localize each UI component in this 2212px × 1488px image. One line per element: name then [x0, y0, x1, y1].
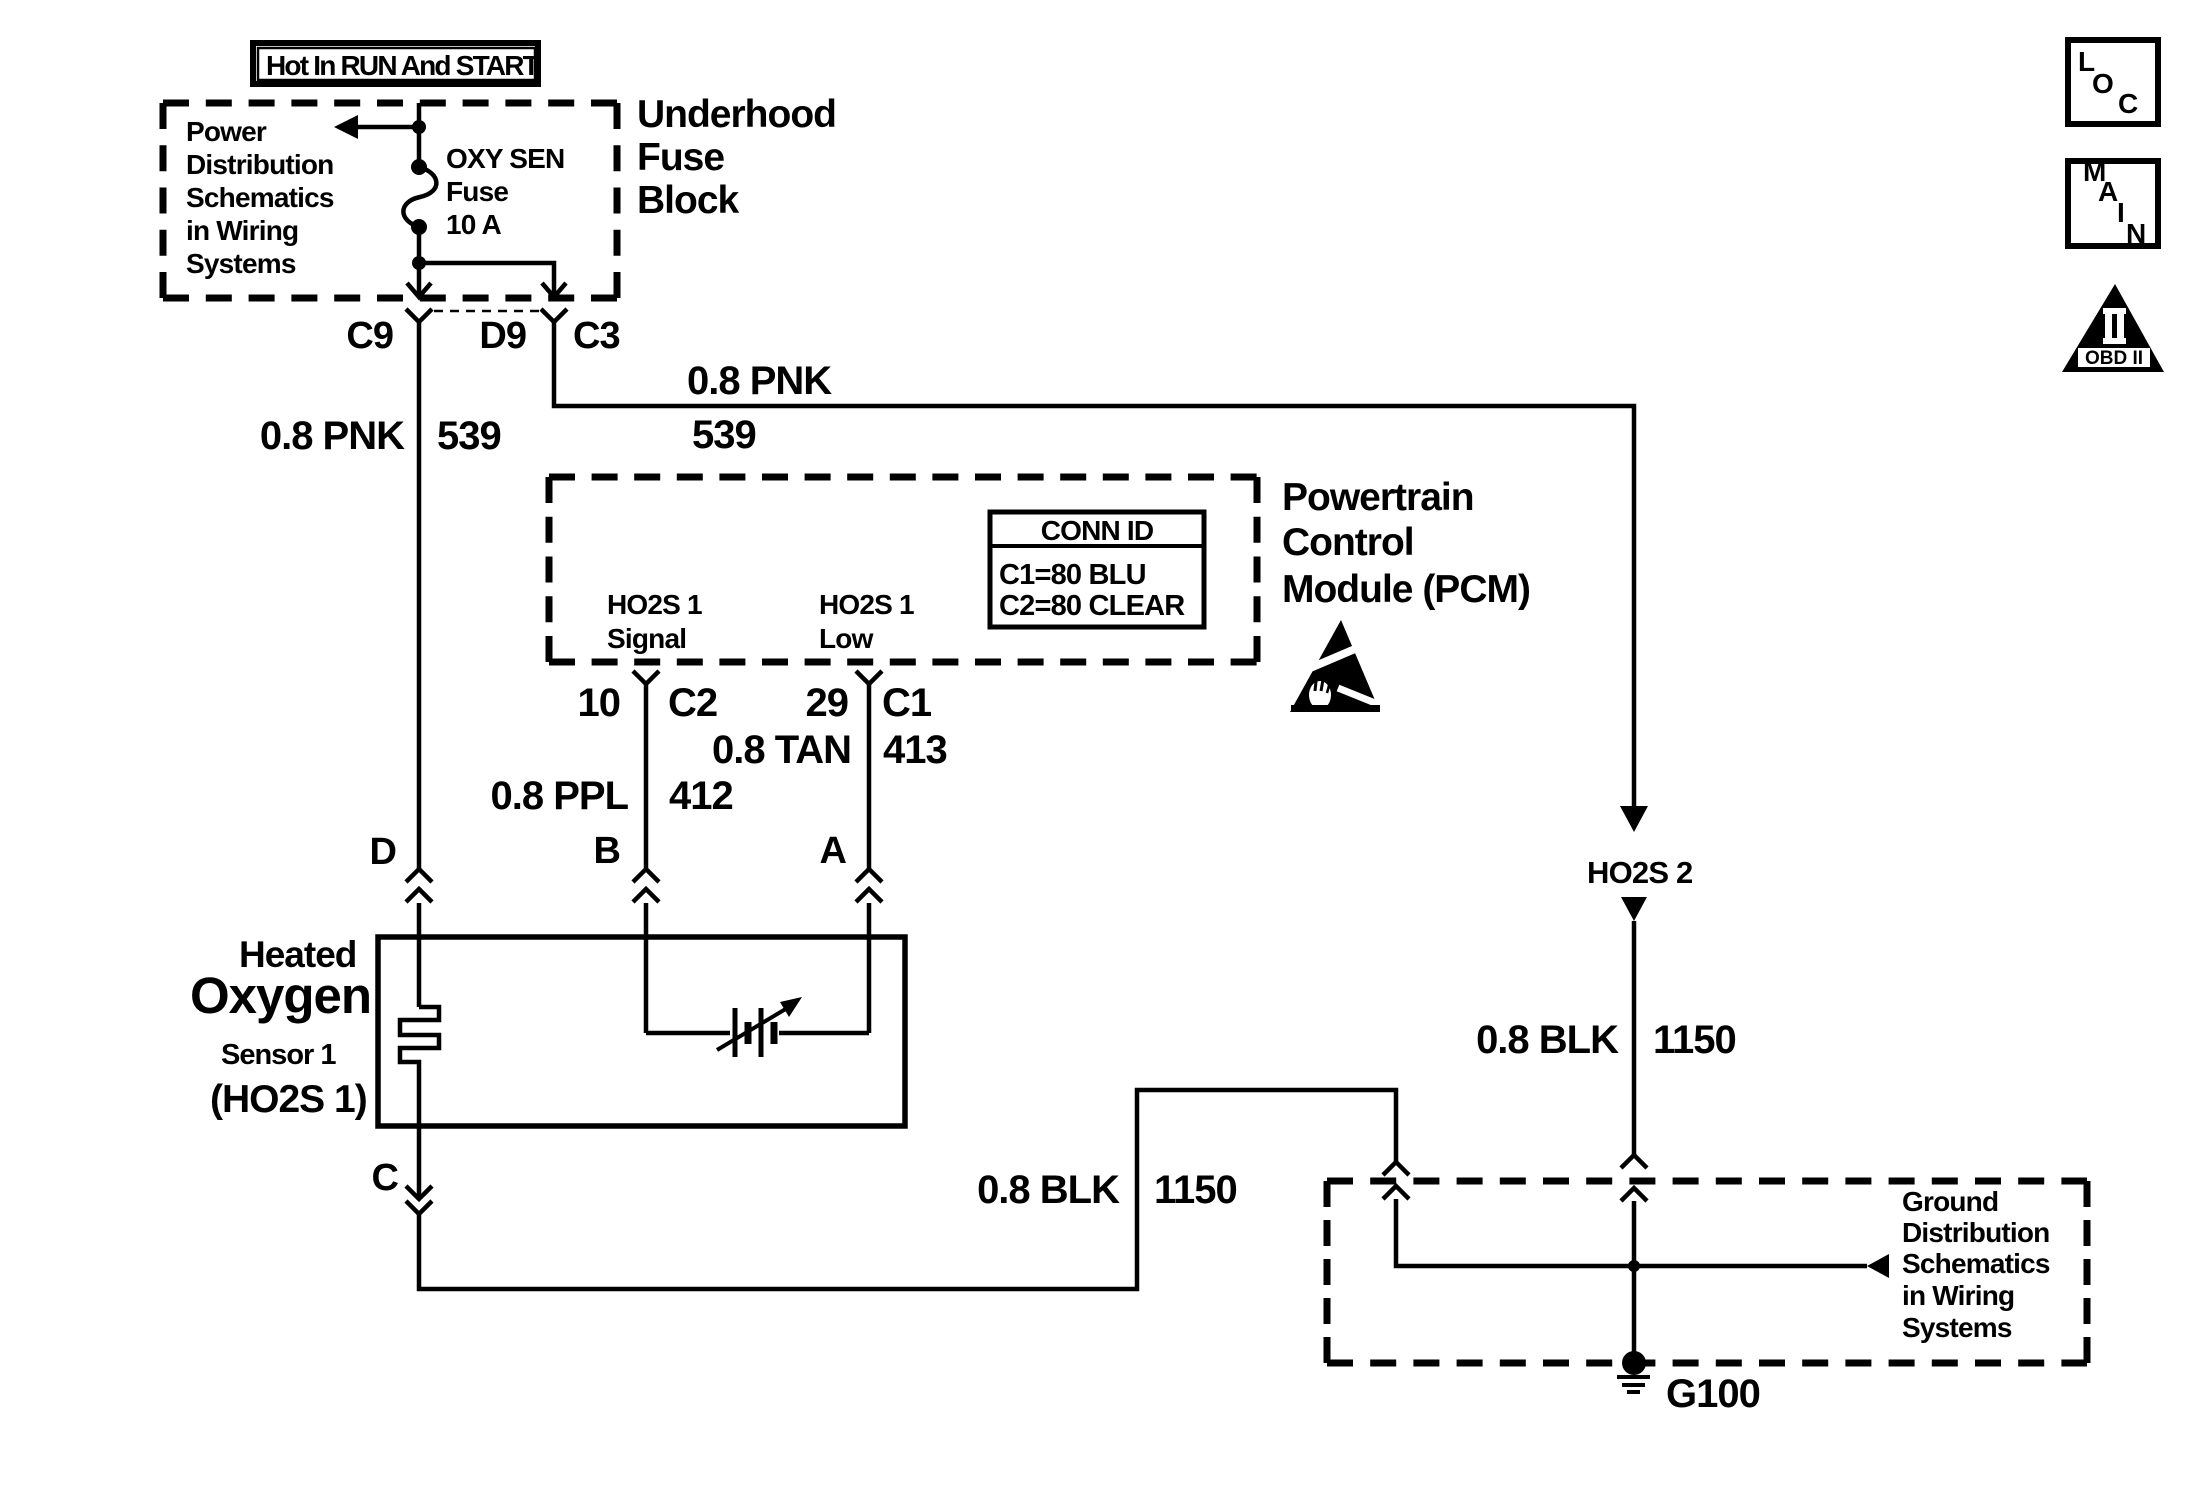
wire below fuse	[417, 227, 422, 295]
svg-text:Systems: Systems	[1902, 1312, 2012, 1343]
svg-text:539: 539	[437, 414, 501, 458]
svg-text:0.8 PNK: 0.8 PNK	[260, 414, 405, 458]
svg-text:413: 413	[883, 728, 947, 772]
PCM pin chevron 10 C2	[633, 671, 659, 684]
svg-text:(HO2S 1): (HO2S 1)	[210, 1078, 367, 1121]
svg-text:D9: D9	[479, 315, 526, 357]
connector C9	[406, 309, 432, 322]
svg-text:G100: G100	[1666, 1372, 1760, 1416]
wire inside ground box from left entry	[1396, 1199, 1634, 1266]
wire PCM C2 pin to B	[644, 684, 649, 869]
svg-text:C1=80 BLU: C1=80 BLU	[999, 559, 1146, 591]
wire to ground distribution reference	[1634, 1264, 1867, 1269]
svg-text:C3: C3	[573, 315, 620, 357]
PCM pin chevron 29 C1	[856, 671, 882, 684]
junction to power distribution arrow	[412, 120, 426, 134]
connector at ground box right entry	[1621, 1155, 1647, 1168]
off-page arrow to power distribution schematics	[357, 125, 419, 130]
svg-text:OBD II: OBD II	[2085, 348, 2143, 369]
heater element	[400, 1007, 439, 1126]
svg-text:10: 10	[578, 681, 621, 725]
wire from hot box into fuse	[417, 103, 422, 167]
svg-text:1150: 1150	[1154, 1168, 1237, 1212]
svg-text:0.8 BLK: 0.8 BLK	[977, 1168, 1120, 1212]
wire PCM C1 pin to A	[867, 684, 872, 869]
svg-text:in Wiring: in Wiring	[186, 215, 298, 246]
svg-text:0.8 TAN: 0.8 TAN	[712, 728, 851, 772]
svg-text:in Wiring: in Wiring	[1902, 1280, 2014, 1311]
svg-text:Signal: Signal	[607, 623, 686, 654]
svg-text:C: C	[372, 1157, 399, 1199]
ESD sensitivity symbol	[1290, 620, 1390, 712]
svg-text:539: 539	[692, 413, 756, 457]
wire A into sensor cell	[867, 903, 872, 1033]
svg-text:C1: C1	[882, 681, 932, 725]
svg-text:A: A	[2098, 176, 2118, 207]
connector D9	[541, 309, 567, 322]
wire HO2S2 to ground box	[1632, 921, 1637, 1155]
inline connector dashed line	[434, 310, 540, 313]
svg-text:Block: Block	[637, 179, 740, 222]
OBD II icon	[2062, 284, 2164, 372]
svg-text:Control: Control	[1282, 521, 1414, 564]
svg-text:Distribution: Distribution	[186, 149, 334, 180]
ground G100	[1622, 1351, 1646, 1375]
connector C	[417, 1126, 422, 1198]
svg-text:Schematics: Schematics	[186, 182, 334, 213]
svg-text:0.8 PNK: 0.8 PNK	[687, 359, 832, 403]
ground distribution dashed box	[1327, 1181, 2087, 1363]
continuation triangle from HO2S 2	[1621, 897, 1647, 921]
svg-text:C2: C2	[668, 681, 717, 725]
svg-text:Schematics: Schematics	[1902, 1248, 2050, 1279]
svg-text:Fuse: Fuse	[446, 176, 508, 207]
svg-text:0.8 BLK: 0.8 BLK	[1476, 1018, 1619, 1062]
wire C to ground box	[419, 1090, 1396, 1289]
svg-text:29: 29	[806, 681, 849, 725]
svg-text:D: D	[370, 831, 396, 873]
junction of branch to C3	[412, 256, 426, 270]
svg-text:C9: C9	[346, 315, 393, 357]
wire D into heater	[417, 903, 422, 1007]
svg-text:Powertrain: Powertrain	[1282, 476, 1474, 519]
wire to G100	[1632, 1201, 1637, 1363]
svg-text:Sensor 1: Sensor 1	[221, 1039, 336, 1071]
svg-text:HO2S 1: HO2S 1	[607, 589, 702, 620]
wire branch to C3	[419, 263, 554, 295]
svg-text:Underhood: Underhood	[637, 93, 836, 136]
svg-text:A: A	[820, 830, 847, 872]
svg-text:OXY SEN: OXY SEN	[446, 143, 564, 174]
svg-text:1150: 1150	[1653, 1018, 1736, 1062]
connector at ground box left entry	[1383, 1162, 1409, 1175]
svg-text:Hot In RUN And START: Hot In RUN And START	[266, 50, 540, 81]
fuse block output arrow D9	[542, 283, 566, 297]
underhood fuse block dashed box	[163, 103, 617, 298]
svg-text:O: O	[2092, 68, 2114, 99]
wire B into sensor cell	[644, 903, 649, 1033]
svg-text:0.8 PPL: 0.8 PPL	[490, 774, 628, 818]
svg-text:Oxygen: Oxygen	[190, 967, 371, 1024]
svg-text:I: I	[2117, 197, 2125, 228]
svg-text:Module (PCM): Module (PCM)	[1282, 568, 1530, 611]
svg-text:C2=80 CLEAR: C2=80 CLEAR	[999, 590, 1185, 622]
svg-text:B: B	[594, 830, 620, 872]
wire C3 to PCM HO2S2	[554, 322, 1634, 806]
svg-text:CONN ID: CONN ID	[1041, 515, 1154, 546]
svg-text:Fuse: Fuse	[637, 136, 724, 179]
off-page arrow to ground distribution schematics	[1867, 1254, 1889, 1278]
svg-text:10 A: 10 A	[446, 209, 501, 240]
svg-text:HO2S 1: HO2S 1	[819, 589, 914, 620]
wire C9 to D connector	[417, 322, 422, 869]
svg-text:Distribution: Distribution	[1902, 1217, 2050, 1248]
svg-text:Ground: Ground	[1902, 1186, 1998, 1217]
sensor cell element	[646, 997, 869, 1057]
PCM dashed box	[549, 477, 1257, 662]
MAIN icon	[2068, 156, 2158, 249]
fuse block output arrow C9	[407, 283, 431, 297]
svg-text:412: 412	[669, 774, 733, 818]
svg-text:C: C	[2118, 88, 2138, 119]
heated oxygen sensor box	[378, 937, 905, 1126]
svg-text:Power: Power	[186, 116, 267, 147]
svg-text:HO2S 2: HO2S 2	[1587, 855, 1692, 890]
CONN ID table	[990, 512, 1204, 627]
fuse OXY SEN 10 A	[411, 159, 427, 175]
svg-text:Low: Low	[819, 623, 874, 654]
arrow into HO2S 2	[1620, 806, 1648, 832]
svg-text:N: N	[2126, 218, 2146, 249]
LOC icon	[2068, 40, 2158, 124]
power feed box Hot In RUN And START	[253, 43, 540, 84]
junction in ground box	[1628, 1260, 1640, 1272]
svg-text:Systems: Systems	[186, 248, 296, 279]
